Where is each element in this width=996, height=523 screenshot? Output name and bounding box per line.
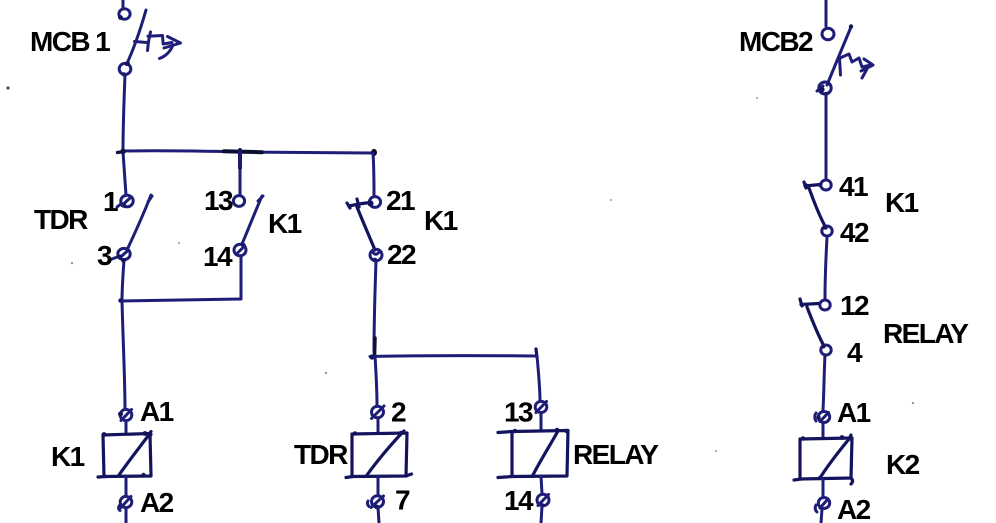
- terminal A1 left: [118, 409, 132, 420]
- terminal 1: [117, 195, 133, 207]
- terminal 22: [370, 249, 382, 262]
- wire to relay coil: [540, 413, 543, 431]
- terminal 4: [821, 345, 831, 356]
- svg-text:7: 7: [395, 485, 410, 516]
- wire A1 to coil: [125, 421, 128, 434]
- svg-text:13: 13: [504, 397, 533, 428]
- terminal 21: [368, 197, 381, 208]
- svg-text:A1: A1: [837, 397, 871, 428]
- svg-text:3: 3: [97, 240, 112, 271]
- wire horizontal to relay branch: [370, 354, 536, 358]
- node loop left junction: [118, 298, 122, 302]
- svg-text:K1: K1: [885, 187, 919, 218]
- svg-text:1: 1: [103, 186, 118, 217]
- wire 14 relay down: [541, 506, 542, 523]
- coil RELAY: [498, 428, 569, 478]
- coil K2: [794, 435, 853, 484]
- svg-text:K1: K1: [51, 441, 85, 472]
- svg-text:4: 4: [847, 337, 863, 368]
- wire coil to 7: [377, 476, 380, 495]
- terminal 12: [820, 300, 830, 310]
- node bus right corner: [371, 149, 377, 156]
- wire down to A1: [122, 301, 125, 409]
- svg-text:14: 14: [203, 241, 233, 272]
- wire A2 down: [125, 508, 128, 523]
- svg-text:41: 41: [839, 171, 868, 202]
- wire coil to A2: [125, 476, 128, 496]
- terminal 14 relay: [537, 494, 549, 507]
- terminal A2 right: [815, 498, 830, 513]
- svg-text:TDR: TDR: [294, 439, 348, 470]
- svg-text:A2: A2: [140, 487, 174, 518]
- svg-text:K2: K2: [886, 449, 920, 480]
- svg-text:14: 14: [504, 485, 534, 516]
- wire 22 down: [374, 261, 376, 352]
- contact K1 21-22 blade: [357, 207, 375, 250]
- terminal 13: [233, 196, 244, 207]
- wire 14 down: [240, 256, 243, 299]
- node bus left T junction: [118, 149, 126, 155]
- corner tick: [536, 349, 537, 357]
- svg-text:2: 2: [391, 397, 406, 428]
- wire branch A drop: [123, 152, 126, 195]
- wire branch B drop: [239, 153, 242, 195]
- K1 contact blade: [242, 196, 263, 244]
- wire down to 13 relay: [537, 356, 540, 401]
- wire coil to 14: [541, 476, 542, 494]
- svg-text:MCB 1: MCB 1: [30, 26, 110, 57]
- scan specks: [6, 86, 914, 452]
- MCB2 breaker: [817, 24, 873, 96]
- coil TDR: [346, 431, 412, 478]
- svg-text:42: 42: [840, 217, 869, 248]
- wire MCB1 to bus: [123, 75, 125, 151]
- wire top stub right: [825, 0, 828, 26]
- svg-text:12: 12: [840, 290, 869, 321]
- wire MCB2 down: [825, 94, 828, 178]
- wire A2 right down: [821, 509, 822, 523]
- wire 42 down: [825, 237, 827, 298]
- wire TDR branch down: [375, 356, 377, 405]
- svg-text:22: 22: [387, 239, 416, 270]
- terminal 7: [367, 496, 383, 510]
- terminal 41: [821, 180, 831, 190]
- svg-text:MCB2: MCB2: [739, 26, 813, 57]
- terminal 14: [234, 243, 246, 256]
- terminal A2 left: [119, 496, 132, 510]
- contact RELAY 12-4: [800, 299, 824, 346]
- svg-text:13: 13: [204, 185, 233, 216]
- wire 4 down: [823, 355, 825, 410]
- bus wire: [122, 151, 372, 153]
- junction node: [224, 149, 262, 168]
- wire coil to A2 right: [822, 479, 825, 497]
- wire 2 to coil: [377, 418, 380, 433]
- MCB1 breaker: [118, 9, 180, 77]
- svg-text:K1: K1: [424, 205, 458, 236]
- svg-text:RELAY: RELAY: [573, 439, 659, 470]
- wire branch C drop: [373, 153, 374, 196]
- loop wire horizontal: [120, 299, 241, 301]
- terminal A1 right: [815, 412, 830, 423]
- terminal 2: [372, 406, 385, 419]
- svg-text:TDR: TDR: [34, 204, 88, 235]
- wire 7 down: [378, 507, 379, 523]
- wire 3 down: [122, 260, 124, 301]
- wire A1 to K2 coil: [822, 423, 825, 438]
- terminal 3: [111, 248, 131, 259]
- svg-text:21: 21: [386, 185, 415, 216]
- svg-text:RELAY: RELAY: [883, 318, 969, 349]
- svg-text:A1: A1: [140, 396, 174, 427]
- wire top stub left: [122, 0, 125, 8]
- contact K1 41-42: [803, 182, 826, 228]
- terminal 13 relay: [535, 401, 547, 412]
- contact K1 21-22 crossbar: [347, 199, 372, 208]
- TDR contact blade: [127, 195, 152, 250]
- svg-text:K1: K1: [268, 208, 302, 239]
- svg-text:A2: A2: [837, 494, 871, 523]
- coil K1: [98, 431, 153, 477]
- terminal 42: [822, 226, 832, 237]
- node TDR branch junction: [369, 338, 375, 360]
